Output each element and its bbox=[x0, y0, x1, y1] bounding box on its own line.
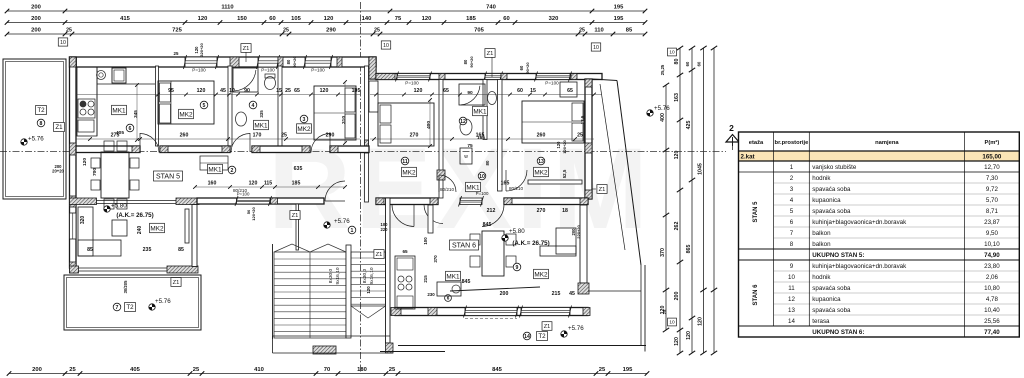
svg-text:spavaća soba: spavaća soba bbox=[812, 285, 851, 292]
stair flight 1 bbox=[274, 244, 346, 338]
rotated dims lobby bbox=[246, 207, 256, 221]
wall kitchen-bedroom5 bbox=[156, 66, 159, 146]
svg-text:370: 370 bbox=[660, 248, 666, 257]
svg-text:105: 105 bbox=[291, 16, 301, 22]
svg-text:80: 80 bbox=[485, 160, 490, 165]
circled 8 bbox=[37, 119, 45, 127]
svg-text:290: 290 bbox=[326, 28, 336, 34]
stair stringer bbox=[346, 245, 351, 338]
section marker 2 bbox=[726, 123, 739, 152]
circled 3 bbox=[300, 115, 308, 123]
svg-text:MK2: MK2 bbox=[179, 111, 193, 118]
stan6 counter island bbox=[437, 282, 461, 296]
label MK1 stan6 bbox=[446, 271, 461, 280]
svg-text:P=100: P=100 bbox=[545, 81, 559, 86]
svg-text:335: 335 bbox=[259, 110, 264, 118]
svg-text:215: 215 bbox=[423, 275, 428, 283]
svg-text:2: 2 bbox=[790, 175, 794, 182]
svg-text:25: 25 bbox=[662, 309, 667, 314]
table heavy lines bbox=[739, 132, 1020, 337]
label MK2 room11 bbox=[402, 167, 417, 176]
svg-text:65: 65 bbox=[294, 88, 300, 94]
circled 12 bbox=[459, 117, 467, 125]
label Z1 corridor bbox=[290, 211, 300, 220]
svg-text:STAN 6: STAN 6 bbox=[452, 243, 476, 250]
svg-text:200: 200 bbox=[31, 5, 41, 11]
svg-text:10: 10 bbox=[479, 174, 485, 180]
svg-text:hodnik: hodnik bbox=[812, 274, 831, 281]
door swing dashed bbox=[465, 318, 517, 320]
svg-text:80: 80 bbox=[286, 59, 291, 64]
window top wall 2 bbox=[257, 55, 280, 73]
wall mid band 2 bbox=[160, 146, 230, 153]
svg-text:120: 120 bbox=[414, 88, 423, 94]
svg-text:200: 200 bbox=[31, 16, 41, 22]
svg-text:MK2: MK2 bbox=[297, 126, 311, 133]
window left wall bbox=[70, 213, 77, 239]
svg-text:MK2: MK2 bbox=[150, 225, 164, 232]
svg-text:100: 100 bbox=[423, 237, 428, 245]
small dims near walls top bbox=[174, 43, 530, 74]
svg-text:terasa: terasa bbox=[812, 318, 830, 325]
svg-text:+5.80: +5.80 bbox=[111, 203, 127, 210]
corridor closet bbox=[200, 156, 228, 170]
svg-text:290: 290 bbox=[326, 133, 335, 139]
svg-text:8x30,0: 8x30,0 bbox=[362, 268, 368, 283]
wall living-left bottom bbox=[70, 266, 199, 273]
svg-text:25: 25 bbox=[285, 88, 291, 94]
elevation +5.76 right bbox=[647, 105, 670, 116]
dim texts stan6 bottom bbox=[462, 222, 575, 297]
svg-text:25: 25 bbox=[174, 51, 179, 56]
svg-text:90: 90 bbox=[244, 88, 250, 94]
svg-text:845: 845 bbox=[462, 279, 471, 285]
window top wall 3 bbox=[304, 55, 333, 73]
wall stan6 left stub bbox=[428, 205, 433, 233]
circled 2 bbox=[228, 166, 236, 174]
svg-text:6: 6 bbox=[129, 126, 132, 132]
label STAN 6 bbox=[449, 240, 478, 250]
svg-text:240: 240 bbox=[137, 226, 143, 235]
kitchen1 counter bbox=[77, 67, 155, 136]
bed room11 bbox=[378, 103, 434, 146]
table vertical group labels bbox=[753, 201, 759, 306]
kitchen1 hob bbox=[78, 99, 95, 118]
svg-text:865: 865 bbox=[686, 245, 692, 254]
svg-text:4: 4 bbox=[790, 197, 794, 204]
svg-text:635: 635 bbox=[294, 166, 303, 172]
svg-text:200: 200 bbox=[674, 292, 680, 301]
svg-text:UKUPNO STAN 5:: UKUPNO STAN 5: bbox=[812, 252, 864, 259]
elevation +5.76 bottom-left terrace bbox=[149, 298, 171, 310]
svg-text:85: 85 bbox=[178, 247, 184, 253]
wall mid band 1 bbox=[76, 146, 140, 153]
bath12 toilet bbox=[488, 92, 497, 105]
svg-text:10: 10 bbox=[383, 43, 389, 49]
hatch top right d bbox=[571, 74, 577, 80]
svg-text:7,30: 7,30 bbox=[986, 175, 999, 182]
svg-text:hodnik: hodnik bbox=[812, 175, 831, 182]
svg-text:65: 65 bbox=[443, 88, 449, 94]
svg-text:10: 10 bbox=[669, 50, 675, 56]
window top right 3 bbox=[535, 72, 572, 86]
label MK2 room13 bbox=[534, 167, 549, 176]
bath4 toilet bbox=[265, 74, 276, 90]
hatch top right b bbox=[439, 74, 445, 80]
dimension line right v2 bbox=[674, 46, 683, 355]
svg-text:Z1: Z1 bbox=[544, 324, 551, 330]
svg-text:1: 1 bbox=[351, 228, 354, 234]
svg-text:25: 25 bbox=[389, 367, 396, 373]
wall outer right upper bbox=[585, 79, 592, 199]
dim texts under beds bbox=[76, 133, 594, 141]
svg-text:320+20: 320+20 bbox=[199, 43, 204, 57]
svg-text:5: 5 bbox=[790, 208, 794, 215]
svg-text:120: 120 bbox=[249, 181, 258, 187]
window top right 1 bbox=[396, 72, 432, 86]
svg-text:230: 230 bbox=[427, 292, 435, 297]
svg-text:10: 10 bbox=[593, 45, 599, 51]
svg-text:85: 85 bbox=[626, 28, 633, 34]
dimension line top row2 bbox=[5, 16, 648, 25]
dim texts row upper bbox=[76, 88, 602, 96]
stair wall left bbox=[272, 244, 274, 339]
svg-text:+5.76: +5.76 bbox=[654, 105, 670, 112]
door arc stan6 entry bbox=[392, 205, 414, 227]
dining table left bbox=[91, 141, 139, 209]
label Z1 right bbox=[592, 185, 607, 194]
label Z1 bottom right bbox=[542, 322, 552, 331]
wall stan6 right bbox=[578, 205, 589, 294]
rotated dims middle bbox=[123, 110, 585, 297]
door labels bbox=[233, 186, 523, 193]
svg-text:25: 25 bbox=[66, 28, 72, 34]
circled 14 bbox=[523, 332, 531, 340]
label MK1 corridor2 bbox=[208, 164, 223, 173]
svg-text:74,90: 74,90 bbox=[984, 252, 1000, 259]
svg-text:P=100: P=100 bbox=[405, 81, 419, 86]
door arc mid band a bbox=[140, 133, 159, 153]
svg-text:Z1: Z1 bbox=[55, 124, 63, 131]
svg-text:4: 4 bbox=[252, 103, 255, 109]
svg-text:163: 163 bbox=[674, 93, 680, 102]
svg-text:15: 15 bbox=[276, 88, 282, 94]
small labels top row3 bbox=[66, 28, 585, 34]
svg-text:150: 150 bbox=[237, 16, 247, 22]
svg-text:8: 8 bbox=[790, 241, 794, 248]
svg-text:25: 25 bbox=[374, 28, 380, 34]
circled 1 stairs bbox=[348, 226, 356, 234]
svg-text:STAN 5: STAN 5 bbox=[753, 201, 759, 223]
label MK1 kitchen1 bbox=[112, 105, 127, 114]
svg-text:5: 5 bbox=[203, 103, 206, 109]
svg-text:14: 14 bbox=[524, 334, 530, 340]
label Z1 top2 bbox=[241, 44, 251, 62]
door arc hall10 a bbox=[424, 205, 443, 224]
svg-text:25: 25 bbox=[579, 28, 585, 34]
svg-text:60: 60 bbox=[685, 61, 690, 66]
label MK1 bath12 bbox=[473, 106, 488, 115]
label MK2 room5 bbox=[179, 109, 194, 118]
svg-text:vanjsko stubište: vanjsko stubište bbox=[812, 164, 857, 171]
hatch top wall corner bbox=[70, 57, 77, 67]
window corridor bottom bbox=[235, 192, 272, 207]
svg-text:410: 410 bbox=[254, 367, 264, 373]
svg-text:60: 60 bbox=[519, 65, 524, 70]
stair bottom wall stub bbox=[313, 346, 336, 354]
svg-text:270: 270 bbox=[410, 133, 419, 139]
circled 5 bbox=[200, 101, 208, 109]
svg-text:12: 12 bbox=[788, 296, 795, 303]
elevation +5.80 living-left bbox=[104, 203, 154, 220]
svg-text:13: 13 bbox=[788, 307, 795, 314]
svg-text:10,80: 10,80 bbox=[984, 285, 1000, 292]
wall corridor bottom bbox=[197, 198, 324, 204]
svg-text:725: 725 bbox=[172, 28, 182, 34]
svg-text:845: 845 bbox=[483, 222, 492, 228]
label MK2 living-left bbox=[150, 223, 165, 232]
dimension line right v1 bbox=[660, 83, 669, 332]
svg-text:235: 235 bbox=[143, 247, 152, 253]
door arc corridor bbox=[325, 181, 345, 201]
svg-text:140: 140 bbox=[362, 16, 372, 22]
svg-text:+5.76: +5.76 bbox=[334, 218, 350, 225]
window stan6 bottom 2 bbox=[520, 306, 572, 318]
svg-text:25: 25 bbox=[193, 367, 200, 373]
hatch top right c bbox=[501, 74, 507, 80]
svg-text:kuhinja+blagovaonica+dn.borava: kuhinja+blagovaonica+dn.boravak bbox=[812, 219, 907, 226]
svg-text:45: 45 bbox=[220, 88, 226, 94]
svg-text:25: 25 bbox=[281, 133, 287, 139]
svg-text:MK2: MK2 bbox=[534, 271, 548, 278]
svg-text:T2: T2 bbox=[538, 333, 546, 340]
wall mid band 4 bbox=[330, 146, 369, 153]
wall room13 left bbox=[498, 80, 503, 192]
table 2.kat row text bbox=[741, 154, 1002, 161]
circled 11 bbox=[401, 157, 409, 165]
bath4 shower bbox=[233, 68, 258, 92]
svg-text:9,50: 9,50 bbox=[986, 230, 999, 237]
svg-text:2.kat: 2.kat bbox=[741, 154, 755, 161]
label T2 bottom-left bbox=[125, 302, 136, 311]
svg-text:200: 200 bbox=[500, 291, 509, 297]
svg-text:185: 185 bbox=[292, 181, 301, 187]
svg-text:345: 345 bbox=[133, 110, 138, 118]
terrace T2 top-left bbox=[3, 59, 66, 199]
terrace bottom-left bbox=[64, 275, 201, 330]
svg-text:80: 80 bbox=[463, 59, 468, 64]
section line vertical bbox=[360, 2, 362, 373]
dim texts corridor bbox=[193, 181, 509, 189]
svg-text:80/210: 80/210 bbox=[509, 186, 523, 191]
svg-text:160: 160 bbox=[208, 181, 217, 187]
table data rows bbox=[788, 164, 1000, 336]
svg-text:MK2: MK2 bbox=[402, 169, 416, 176]
svg-text:T2: T2 bbox=[37, 107, 45, 114]
svg-text:2: 2 bbox=[729, 123, 734, 133]
elevation +5.76 terrace1 bbox=[21, 136, 44, 146]
window stan6 bottom 1 bbox=[464, 306, 519, 318]
label MK1 hall10 bbox=[466, 182, 481, 191]
label Z1 terrace1 bbox=[54, 122, 65, 131]
svg-text:3: 3 bbox=[790, 186, 794, 193]
svg-text:Z1: Z1 bbox=[376, 252, 383, 258]
wall stan6 bottom bbox=[391, 308, 590, 316]
circled 4 bbox=[249, 101, 257, 109]
stan6 dining table bbox=[470, 231, 516, 276]
svg-text:170: 170 bbox=[253, 133, 262, 139]
terrace edge slanted bbox=[592, 79, 641, 265]
svg-text:6: 6 bbox=[790, 219, 794, 226]
svg-text:60: 60 bbox=[517, 88, 523, 94]
door arc room13 bbox=[506, 170, 527, 191]
svg-text:MK2: MK2 bbox=[534, 169, 548, 176]
svg-text:120: 120 bbox=[197, 88, 206, 94]
svg-text:balkon: balkon bbox=[812, 230, 831, 237]
svg-text:180: 180 bbox=[357, 367, 367, 373]
svg-text:9x16,10: 9x16,10 bbox=[369, 267, 375, 284]
window top wall 1 bbox=[184, 55, 219, 73]
svg-text:w: w bbox=[464, 154, 468, 160]
svg-text:845: 845 bbox=[492, 367, 502, 373]
stan6 small circle bbox=[445, 295, 452, 302]
svg-text:25: 25 bbox=[599, 367, 606, 373]
svg-text:270: 270 bbox=[537, 208, 546, 214]
dimension line bottom bbox=[7, 367, 650, 376]
stan6 sofa bbox=[540, 228, 576, 256]
wall living-left top bbox=[70, 198, 200, 205]
svg-text:400: 400 bbox=[426, 121, 432, 129]
section line horizontal bbox=[0, 151, 726, 153]
svg-text:215: 215 bbox=[552, 291, 561, 297]
svg-text:spavaća soba: spavaća soba bbox=[812, 208, 851, 215]
svg-text:90+20: 90+20 bbox=[292, 56, 297, 68]
svg-text:P(m²): P(m²) bbox=[984, 139, 999, 146]
svg-text:30/205: 30/205 bbox=[123, 280, 128, 293]
svg-text:220+20: 220+20 bbox=[576, 225, 581, 239]
hatch top right a bbox=[376, 74, 395, 80]
svg-text:1: 1 bbox=[790, 164, 794, 171]
svg-text:br.prostorije: br.prostorije bbox=[775, 140, 810, 146]
svg-text:425: 425 bbox=[686, 121, 692, 130]
svg-text:120: 120 bbox=[320, 88, 329, 94]
dimension line right v5 bbox=[711, 46, 717, 355]
door arc mid band c bbox=[311, 133, 330, 153]
svg-text:1045: 1045 bbox=[698, 163, 704, 175]
svg-text:T2: T2 bbox=[126, 304, 134, 311]
svg-text:52,5: 52,5 bbox=[562, 169, 567, 178]
svg-text:12: 12 bbox=[460, 119, 466, 125]
hatch top wall b3 bbox=[337, 57, 342, 67]
rotated dims small left bbox=[52, 110, 138, 176]
svg-text:80/210: 80/210 bbox=[440, 187, 454, 192]
svg-text:65: 65 bbox=[567, 88, 573, 94]
svg-text:MK1: MK1 bbox=[254, 122, 268, 129]
svg-text:77,40: 77,40 bbox=[984, 329, 1000, 336]
svg-text:262: 262 bbox=[674, 222, 680, 231]
label T2 top-left bbox=[36, 105, 47, 114]
living-left table bbox=[112, 220, 127, 236]
svg-text:320: 320 bbox=[80, 216, 86, 225]
svg-text:120: 120 bbox=[422, 16, 432, 22]
svg-text:Z1: Z1 bbox=[292, 213, 299, 219]
hatch top wall b2 bbox=[278, 57, 283, 67]
svg-text:14: 14 bbox=[788, 318, 795, 325]
svg-text:25,56: 25,56 bbox=[984, 318, 1000, 325]
svg-text:85: 85 bbox=[87, 247, 93, 253]
svg-text:kupaonica: kupaonica bbox=[812, 296, 841, 303]
boxed 10 markers top bbox=[58, 38, 600, 51]
stair wall right bbox=[386, 198, 394, 353]
room height dim lines bbox=[135, 80, 432, 148]
svg-text:120+20: 120+20 bbox=[562, 140, 567, 154]
svg-text:75: 75 bbox=[467, 143, 473, 149]
svg-text:8: 8 bbox=[40, 121, 43, 127]
bath4 sink bbox=[236, 112, 247, 126]
svg-text:120: 120 bbox=[686, 331, 692, 340]
dim texts living-left bbox=[80, 216, 184, 253]
svg-text:17,5: 17,5 bbox=[580, 115, 585, 124]
svg-text:200: 200 bbox=[31, 28, 41, 34]
svg-text:700: 700 bbox=[92, 168, 98, 176]
svg-text:65: 65 bbox=[402, 249, 408, 254]
svg-text:95: 95 bbox=[168, 88, 174, 94]
svg-text:+5.76: +5.76 bbox=[568, 325, 584, 332]
svg-text:P=100: P=100 bbox=[261, 68, 275, 73]
elevation +5.76 stairs bbox=[324, 218, 350, 228]
wardrobe room13 bbox=[560, 82, 577, 97]
svg-text:STAN 5: STAN 5 bbox=[156, 174, 180, 181]
bath12 sink bbox=[460, 119, 472, 135]
table grid lines bbox=[774, 161, 1020, 326]
svg-text:705: 705 bbox=[474, 28, 484, 34]
table background bbox=[739, 132, 1020, 336]
terrace bottom right outline bbox=[380, 265, 646, 352]
svg-text:20+20: 20+20 bbox=[52, 169, 64, 174]
svg-text:260: 260 bbox=[537, 133, 546, 139]
living-left sofa bbox=[78, 207, 121, 256]
svg-text:MK1: MK1 bbox=[473, 108, 487, 115]
svg-text:4,78: 4,78 bbox=[986, 296, 999, 303]
label MK2 stan6 bbox=[534, 269, 549, 278]
label Z1 living-left bbox=[171, 278, 181, 287]
kitchen1 small box bbox=[78, 120, 94, 132]
window top right 2 bbox=[484, 72, 503, 82]
label Z1 top bbox=[485, 49, 495, 77]
circled 9 bbox=[513, 263, 521, 271]
dim texts stan6 top bbox=[487, 208, 568, 214]
svg-text:namjena: namjena bbox=[875, 140, 899, 146]
svg-text:23,87: 23,87 bbox=[984, 219, 1000, 226]
svg-text:11: 11 bbox=[402, 159, 408, 165]
svg-text:110: 110 bbox=[594, 28, 603, 34]
svg-text:25: 25 bbox=[283, 28, 289, 34]
stan6 kitchen counter bbox=[395, 256, 415, 309]
svg-text:Z1: Z1 bbox=[243, 46, 250, 52]
hatch top wall b1 bbox=[230, 57, 239, 67]
svg-text:Z1: Z1 bbox=[599, 187, 606, 193]
svg-text:120: 120 bbox=[698, 317, 704, 326]
svg-text:8x30,0: 8x30,0 bbox=[328, 268, 334, 283]
label MK1 bath4 bbox=[254, 120, 269, 129]
svg-text:8,71: 8,71 bbox=[986, 208, 999, 215]
svg-text:UKUPNO STAN 6:: UKUPNO STAN 6: bbox=[812, 329, 864, 336]
stairwell outline bottom bbox=[273, 336, 394, 353]
svg-text:etaža: etaža bbox=[749, 140, 764, 146]
table 2.kat highlight row bbox=[739, 151, 1020, 161]
svg-text:120+20: 120+20 bbox=[251, 207, 256, 221]
svg-text:(A.K.= 26.75): (A.K.= 26.75) bbox=[512, 240, 549, 247]
